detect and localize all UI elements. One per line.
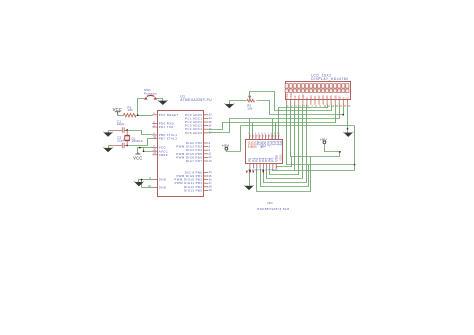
svg-text:VSS: VSS xyxy=(285,93,289,99)
resistor R2 xyxy=(247,99,255,102)
junction R2 top node xyxy=(249,97,250,98)
wire PCF8574 pin to LCD pin 11 xyxy=(279,105,328,140)
LCD pad 1 (row 1) xyxy=(285,84,288,89)
junction +5V node xyxy=(339,151,341,153)
U1 pin 26 (PC3 ADC3) stub xyxy=(203,125,208,127)
U1 pin 28 (PC5 ADC5) stub xyxy=(203,132,208,134)
LCD pin stub 3 xyxy=(294,100,296,105)
LCD pad 12 (row 2) xyxy=(330,89,333,93)
LCD pad 14 (row 1) xyxy=(338,84,341,89)
svg-text:VDD: VDD xyxy=(278,155,282,161)
LCD pad 4 (row 2) xyxy=(297,89,300,93)
PCF8574 top pin stub 3 xyxy=(255,134,257,140)
junction C2/crystal node xyxy=(126,145,128,147)
wire GND node to ground symbol xyxy=(139,180,142,183)
U1 pin 27 (PC4 ADC4) stub xyxy=(203,128,208,130)
IC U1 body (ATMEGA328P-PU outline) xyxy=(158,111,204,197)
LCD pad 3 (row 1) xyxy=(293,84,296,89)
wire U1 GND pin 8 xyxy=(142,179,153,181)
PCF8574 rotated pin names (top row) xyxy=(250,141,283,149)
svg-text:VCC: VCC xyxy=(247,141,251,149)
LCD pad 10 (row 2) xyxy=(322,89,325,93)
svg-text:PD1 TXD: PD1 TXD xyxy=(159,125,174,129)
PCF8574 top pin stub 5 xyxy=(261,134,263,140)
ground below C2 xyxy=(103,147,113,152)
LCD pad 2 (row 2) xyxy=(289,89,292,93)
PCF8574 bottom pin stub 7 xyxy=(269,163,271,168)
wire PCF8574 P1 staircase to +5V rail xyxy=(257,157,311,192)
svg-text:22pF: 22pF xyxy=(117,122,125,126)
wire C1 to ground xyxy=(108,131,110,133)
wire C2 to ground xyxy=(108,146,110,149)
svg-text:VCC: VCC xyxy=(113,107,122,112)
IC U2 body (PCF8574AT outline) xyxy=(246,140,283,164)
svg-text:DIG7 PD7: DIG7 PD7 xyxy=(186,159,203,163)
svg-text:K: K xyxy=(345,97,349,99)
LCD pad 11 (row 1) xyxy=(326,84,329,89)
svg-text:10k: 10k xyxy=(247,107,253,111)
LCD pad 16 (row 1) xyxy=(346,84,349,89)
svg-text:VCC: VCC xyxy=(133,155,142,160)
LCD pin stub 12 xyxy=(330,100,332,105)
wire +5V to net L3 drop xyxy=(227,150,241,152)
svg-text:D5: D5 xyxy=(329,95,333,99)
PCF8574 bottom pin stub 9 xyxy=(275,163,277,168)
wire PCF8574 pin riser to SDA line xyxy=(275,123,277,140)
wire LCD pin 15 riser xyxy=(343,105,345,115)
wire VCC to R1 xyxy=(118,115,124,117)
svg-text:RS: RS xyxy=(297,95,301,99)
svg-text:Pulsador: Pulsador xyxy=(144,91,157,95)
U1 pin 15 (PWM DIG9 PB1) stub xyxy=(203,175,208,177)
PCF8574 bottom pin stub 2 xyxy=(253,163,255,168)
U1 pin 9 (PB6 XTAL1) stub xyxy=(152,134,157,136)
power +5V symbol (PCF supply) xyxy=(225,147,228,150)
wire SDA net (PC4 to PCF8574 and LCD pin 13 riser) xyxy=(209,105,336,130)
junction dots under PCF8574 address pins xyxy=(249,170,251,172)
LCD pad 8 (row 1) xyxy=(313,84,316,89)
wire +5V to LCD pin 2 (VDD) xyxy=(291,105,340,157)
LCD pad 13 (row 2) xyxy=(334,89,337,93)
wire SCL net (PC5 to PCF8574 and LCD pin 14 riser) xyxy=(209,105,340,133)
LCD pad 10 (row 1) xyxy=(322,84,325,89)
PCF8574 bottom pin stub 5 xyxy=(262,163,264,168)
LCD pin stub 11 xyxy=(326,100,328,105)
LCD pad 9 (row 1) xyxy=(317,84,320,89)
LCD pad 14 (row 2) xyxy=(338,89,341,93)
svg-text:GND: GND xyxy=(159,178,167,182)
svg-text:PC5 ADC5: PC5 ADC5 xyxy=(185,131,202,135)
resistor R1 xyxy=(124,114,137,117)
junction reset node xyxy=(137,114,139,116)
PCF8574 bottom pin stub 3 xyxy=(256,163,258,168)
svg-text:ATMEGA328P-PU: ATMEGA328P-PU xyxy=(180,98,212,102)
U1 pin 16 (PWM DIG10 PB2) stub xyxy=(203,179,208,181)
svg-text:D1: D1 xyxy=(313,95,317,99)
LCD pad 12 (row 1) xyxy=(330,84,333,89)
U1 pin 24 (PC1 ADC1) stub xyxy=(203,117,208,119)
wire R2 node to LCD pin 12 (net W1) xyxy=(250,92,332,111)
wire LCD pin 16 to ground arrow xyxy=(347,105,349,133)
LCD pad 16 (row 2) xyxy=(346,89,349,93)
switch SW1 actuator bar xyxy=(147,95,155,96)
U1 pin 12 (PWM DIG6 PD6) stub xyxy=(203,156,208,158)
wire VCC to U1 AVCC pin xyxy=(144,148,153,152)
U1 pin 1 (PC6 RESET) stub xyxy=(152,114,157,116)
wire stub to ground arrow xyxy=(229,101,231,105)
switch SW1 contacts xyxy=(144,97,148,100)
PCF8574 rotated pin names (bottom row) xyxy=(248,155,278,161)
U1 pin 22 (GND) stub xyxy=(152,187,157,189)
capacitor C2 plates xyxy=(122,143,124,148)
U1 pin 10 (PB7 XTAL2) stub xyxy=(152,138,157,140)
LCD pin stub 9 xyxy=(318,100,320,105)
power VCC symbol (U1 supply) xyxy=(135,152,140,154)
svg-text:10k: 10k xyxy=(127,108,133,112)
wire C1 left lead xyxy=(109,130,123,132)
svg-text:A: A xyxy=(341,97,345,99)
PCF8574 top pin stub 1 xyxy=(249,134,251,140)
LCD pin stub 15 xyxy=(342,100,344,105)
LCD pin stub 2 xyxy=(290,100,292,105)
svg-text:AREF: AREF xyxy=(159,153,168,157)
wire LCD pin 1 (VSS) to ground rail xyxy=(287,105,355,165)
junction AVCC node xyxy=(143,150,145,152)
junction U1 ground node xyxy=(141,179,143,181)
LCD pin stub 16 xyxy=(346,100,348,105)
svg-text:D7: D7 xyxy=(337,95,341,99)
wire PCF8574 P7 staircase to +5V rail xyxy=(277,157,292,169)
LCD pin stub 7 xyxy=(310,100,312,105)
U1 pin 17 (PWM DIG11 PB3) stub xyxy=(203,182,208,184)
LCD pin stub 4 xyxy=(298,100,300,105)
wire R1 to PC6 RESET pin xyxy=(137,115,153,117)
svg-text:VDD: VDD xyxy=(289,93,293,99)
power VCC symbol (reset pull-up) xyxy=(115,112,121,115)
svg-text:RW: RW xyxy=(301,94,305,99)
wire riser to LCD pin 3 xyxy=(294,105,296,171)
U1 pin 8 (GND) stub xyxy=(152,179,157,181)
LCD pin stub 1 xyxy=(286,100,288,105)
LCD pad 5 (row 2) xyxy=(301,89,304,93)
wire VCC to U1 VCC pin xyxy=(138,147,153,149)
svg-text:DIG13 PB5: DIG13 PB5 xyxy=(184,188,202,192)
U1 pin 21 (AREF) stub xyxy=(152,154,157,156)
PCF8574 top pin stub 10 xyxy=(277,134,279,140)
PCF8574 top pin stub 8 xyxy=(271,134,273,140)
LCD pad 13 (row 1) xyxy=(334,84,337,89)
svg-text:PC6 RESET: PC6 RESET xyxy=(159,113,179,117)
wire net L3 horizontal run xyxy=(241,125,355,127)
LCD pad 6 (row 1) xyxy=(305,84,308,89)
wire SW1 left leg to RESET node xyxy=(138,99,145,116)
U1 pin 25 (PC2 ADC2) stub xyxy=(203,121,208,123)
LCD pin stub 10 xyxy=(322,100,324,105)
wire C1 right lead xyxy=(125,130,128,132)
power +5V symbol (LCD supply) xyxy=(323,141,326,144)
LCD pad 8 (row 2) xyxy=(313,89,316,93)
wire net L3 riser xyxy=(240,126,242,152)
U1 pin 14 (DIG 8 PB0) stub xyxy=(203,171,208,173)
LCD pad 2 (row 1) xyxy=(289,84,292,89)
U1 pin 19 (DIG13 PB5) stub xyxy=(203,189,208,191)
LCD pad 1 (row 2) xyxy=(285,89,288,93)
U1 pin 7 (VCC) stub xyxy=(152,147,157,149)
ground below R2 rail xyxy=(224,103,234,108)
wire GND riser xyxy=(141,180,143,188)
wire XTAL2 net xyxy=(128,139,153,146)
crystal Q1 vertical lead xyxy=(126,130,128,146)
wire PCF8574 P3 staircase to LCD pin 6 xyxy=(264,105,307,183)
ground below SW1 xyxy=(158,100,168,105)
LCD pin stub 13 xyxy=(334,100,336,105)
LCD pad 7 (row 2) xyxy=(309,89,312,93)
wire ground rail to R2 xyxy=(230,100,247,102)
wire PCF8574 SCL pin riser xyxy=(249,119,251,140)
svg-text:P3: P3 xyxy=(279,141,283,145)
U1 pin 18 (DIG12 PB4) stub xyxy=(203,186,208,188)
svg-text:PB7 XTAL2: PB7 XTAL2 xyxy=(159,137,178,141)
junction on LCD pin 16 drop xyxy=(347,128,349,130)
ground below PCF8574 xyxy=(244,185,254,190)
U1 pin 3 (PD1 TXD) stub xyxy=(152,126,157,128)
crystal Q1 body xyxy=(125,136,130,140)
LCD pin stub 14 xyxy=(338,100,340,105)
wire PCF8574 pin riser to SCL line xyxy=(272,119,274,140)
PCF8574 bottom pin stub 8 xyxy=(272,163,274,168)
wire PCF8574 P6 staircase joining L3 return xyxy=(273,169,295,171)
wire PCF8574 P2 staircase to VSS rail xyxy=(261,165,309,187)
LCD pad 5 (row 1) xyxy=(301,84,304,89)
PCF8574 top pin stub 7 xyxy=(268,134,270,140)
PCF8574 bottom pin stub 6 xyxy=(266,163,268,168)
svg-text:GND: GND xyxy=(159,186,167,190)
svg-text:D2: D2 xyxy=(317,95,321,99)
LCD pad 6 (row 2) xyxy=(305,89,308,93)
ground below U1 xyxy=(134,181,144,186)
wire C2 right lead xyxy=(125,145,128,147)
wire PCF8574 SDA pin riser xyxy=(252,123,254,140)
PCF8574 top pin stub 2 xyxy=(252,134,254,140)
LCD pad 15 (row 1) xyxy=(342,84,345,89)
LCD pin stub 5 xyxy=(302,100,304,105)
LCD pad 11 (row 2) xyxy=(326,89,329,93)
LCD pin stub 6 xyxy=(306,100,308,105)
U1 pin 11 (PWM DIG5 PD5) stub xyxy=(203,153,208,155)
wire C2 left lead xyxy=(109,145,123,147)
U1 pin 2 (PD0 RXD) stub xyxy=(152,122,157,124)
U1 pin 6 (DIG4 PD4) stub xyxy=(203,149,208,151)
svg-text:DISPLAY_HD44780: DISPLAY_HD44780 xyxy=(311,77,348,81)
svg-text:D6: D6 xyxy=(333,95,337,99)
junction marks under PCF8574 address pins xyxy=(246,171,248,174)
U1 pin 23 (PC0 ADC0) stub xyxy=(203,114,208,116)
svg-text:I2C: I2C xyxy=(267,201,273,205)
wire U1 GND pin 22 xyxy=(142,187,153,189)
U1 pin 5 (PWM DIG3 PD3) stub xyxy=(203,146,208,148)
connector LCD body outline xyxy=(286,82,351,100)
svg-text:V0: V0 xyxy=(293,95,297,99)
PCF8574 top pin stub 6 xyxy=(265,134,267,140)
LCD pad 4 (row 1) xyxy=(297,84,300,89)
LCD pad 3 (row 2) xyxy=(293,89,296,93)
svg-text:E: E xyxy=(305,97,309,99)
junction C1/crystal node xyxy=(126,129,128,131)
PCF8574 bottom pin stub 1 xyxy=(249,163,251,168)
PCF8574 top pin stub 9 xyxy=(274,134,276,140)
svg-text:D3: D3 xyxy=(321,95,325,99)
U1 pin 4 (DIG2 PD2) stub xyxy=(203,142,208,144)
wire PCF8574 P5 staircase to LCD pin 4 xyxy=(270,105,299,175)
svg-text:16MHZ: 16MHZ xyxy=(131,139,142,143)
svg-text:PCF8574AT/3,518: PCF8574AT/3,518 xyxy=(257,207,289,211)
junction VCC node xyxy=(139,147,141,149)
wire net L3 drop to return line xyxy=(295,126,355,171)
svg-text:22pF: 22pF xyxy=(117,138,125,142)
wire PCF8574 address pins to ground xyxy=(249,169,251,186)
wire XTAL1 net xyxy=(128,131,153,135)
LCD pad 9 (row 2) xyxy=(317,89,320,93)
U1 pin 20 (AVCC) stub xyxy=(152,150,157,152)
wire R2 right to LCD pin 15 line (net W2) xyxy=(257,101,344,115)
LCD pin stub 8 xyxy=(314,100,316,105)
crystal Q1 plates xyxy=(124,135,130,141)
U1 pin 13 (DIG7 PD7) stub xyxy=(203,160,208,162)
svg-text:D0: D0 xyxy=(309,95,313,99)
wire VCC symbol riser xyxy=(137,148,139,153)
LCD pad 7 (row 1) xyxy=(309,84,312,89)
junction W2 and LCD pin 15 xyxy=(342,114,344,116)
PCF8574 top pin stub 4 xyxy=(258,134,260,140)
ground below LCD backlight xyxy=(343,132,353,137)
PCF8574 bottom pin stub 4 xyxy=(259,163,261,168)
wire SW1 right leg to ground xyxy=(157,99,163,101)
junction L3 and LCD pin 1 ground run xyxy=(354,164,356,166)
net flag arrow above R2 xyxy=(248,96,251,99)
wire PCF8574 P4 staircase to LCD pin 5 xyxy=(267,105,303,179)
svg-text:D4: D4 xyxy=(325,95,329,99)
capacitor C1 plates xyxy=(122,127,124,132)
LCD pad 15 (row 2) xyxy=(342,89,345,93)
ground below C1 xyxy=(103,132,113,137)
